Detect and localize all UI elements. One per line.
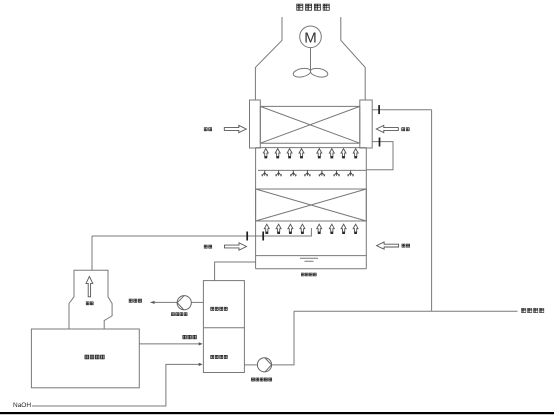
label: hot water circulation pump	[251, 378, 271, 381]
label: air upper right	[402, 128, 410, 131]
twin tank divider	[203, 327, 244, 329]
flow arrowhead slag water into pool	[199, 342, 203, 345]
pump P1 circulating water pump	[177, 296, 191, 310]
sump drain to circulating pool	[215, 262, 256, 281]
exhaust duct left wall	[255, 17, 282, 100]
riser pipe right side	[431, 110, 433, 312]
label: slag water pool	[211, 355, 228, 358]
air inlet arrow upper right	[376, 125, 398, 132]
valve on top spray feed	[378, 105, 380, 114]
pump1 suction line	[191, 301, 203, 303]
pump2 discharge to main line	[272, 311, 294, 365]
flow arrowhead NaOH into pool	[199, 363, 203, 366]
slag flushing system tank	[31, 329, 139, 388]
exhaust duct right wall	[341, 17, 365, 100]
svg-text:NaOH: NaOH	[13, 402, 31, 409]
spray nozzle row	[262, 170, 354, 176]
label: steam	[86, 302, 93, 305]
pipe: upper spray header external	[366, 142, 393, 170]
spray header line	[258, 169, 366, 171]
valve on upper header feed	[379, 138, 381, 147]
air inlet arrow upper left	[224, 125, 246, 132]
chimney outline	[69, 270, 112, 328]
sump bottom line	[256, 268, 367, 270]
pump2 suction line	[244, 364, 257, 366]
slag water line to pool	[139, 343, 201, 345]
valve outside tower on row2 feed	[246, 232, 248, 241]
label: slag flushing system	[85, 355, 104, 359]
steam vent arrow	[86, 276, 93, 296]
pipe: top spray feed from flange to riser	[372, 109, 431, 111]
valve inside tower on row2 feed	[262, 232, 264, 241]
top packing section with X cross	[260, 106, 360, 143]
chimney riser from slag system	[91, 236, 93, 270]
tower right wall	[365, 148, 367, 269]
label: air upper left	[204, 128, 212, 131]
main recirculation line	[294, 310, 518, 312]
pump P2 hot water circulation pump	[257, 358, 271, 372]
label: right end of main line	[522, 308, 544, 312]
water level symbol	[300, 258, 318, 261]
NaOH line	[32, 364, 201, 406]
label: exhaust gas outlet (top)	[297, 4, 329, 10]
top packing right flange	[360, 100, 372, 148]
air inlet arrow lower left	[225, 243, 247, 250]
label: mixing device (below sump)	[301, 273, 316, 276]
flow arrowhead to cooling (left)	[151, 301, 155, 304]
nozzle row2 feed pipe with internal riser	[92, 228, 311, 236]
label: circulating water pump	[171, 313, 187, 316]
nozzle row 1	[263, 149, 358, 159]
fan motor M	[300, 26, 322, 48]
label: to cooling	[129, 299, 141, 302]
twin water pool tank	[203, 281, 244, 373]
bottom border line	[0, 412, 554, 414]
air inlet arrow lower right	[377, 242, 399, 249]
top packing left flange	[250, 100, 261, 148]
tower left wall	[255, 148, 257, 269]
nozzle row 2	[264, 224, 358, 234]
lower packing section with X cross	[256, 189, 367, 221]
fan propeller	[292, 67, 328, 78]
sump top line	[256, 255, 367, 257]
label: circulating water pool	[211, 307, 228, 310]
tower cross line under flanges	[256, 147, 367, 149]
svg-text:M: M	[304, 29, 317, 46]
label: air lower right	[402, 244, 410, 247]
label: air lower left	[204, 245, 212, 248]
motor shaft	[310, 48, 312, 71]
pump1 discharge line	[151, 301, 178, 303]
label: slag water	[183, 335, 196, 338]
